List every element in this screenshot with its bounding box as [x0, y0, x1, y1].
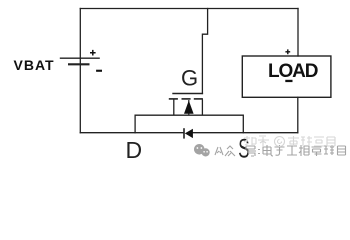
body arrow (points to channel)	[188, 100, 190, 115]
label battery -	[96, 70, 102, 72]
wire D-S bottom rail of MOSFET with left/right drops	[135, 115, 243, 133]
svg-text:G: G	[181, 65, 198, 90]
drain lead	[173, 100, 175, 116]
wire LOAD bottom drop	[297, 97, 299, 132]
label LOAD -	[285, 80, 292, 82]
diode D1 body diode on bottom rail	[184, 128, 193, 138]
wire bottom rail left (battery- to diode)	[80, 132, 184, 134]
svg-text:LOAD: LOAD	[268, 61, 318, 82]
wire gate branch from top rail (jog)	[202, 9, 207, 94]
watermark wechat logo	[194, 144, 210, 156]
svg-text:D: D	[126, 137, 143, 163]
battery B1 VBAT	[60, 58, 100, 64]
wire left vertical through battery	[79, 9, 81, 133]
wire LOAD top drop	[297, 9, 299, 57]
gate plate	[172, 93, 203, 95]
source lead	[201, 100, 203, 116]
LOAD box	[242, 56, 331, 97]
svg-text:VBAT: VBAT	[14, 57, 55, 73]
wire top rail VBAT+ to LOAD+	[80, 8, 298, 10]
channel dash (drain)	[169, 98, 178, 100]
watermark text 知乎 @xxxx (light, drawn as glyph blocks)	[244, 136, 335, 147]
channel dash (body)	[182, 98, 191, 100]
channel dash (source)	[194, 98, 203, 100]
label LOAD +	[285, 49, 290, 54]
label battery +	[90, 50, 96, 56]
wire bottom rail right (diode to LOAD drop)	[193, 132, 298, 134]
watermark text 公众号：电子工程师笔记 (drawn as glyph blocks)	[215, 145, 346, 156]
transistor Q1 N-MOSFET	[169, 94, 203, 116]
